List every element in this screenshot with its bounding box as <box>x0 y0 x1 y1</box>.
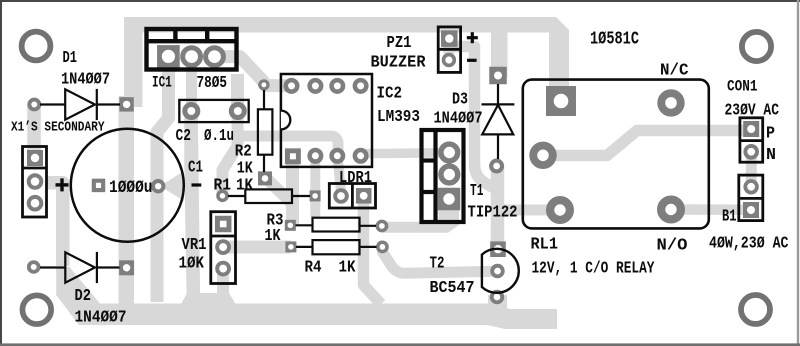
wire bottom ground band left part <box>56 267 487 325</box>
pad T1 collector <box>444 169 455 180</box>
wire ground band fillet under VR1 <box>170 293 248 325</box>
pad D3 anode <box>493 163 500 170</box>
wire D3 anode down to T2 collector pad <box>491 166 505 249</box>
wire R4 right pad to T2 base <box>383 247 498 273</box>
svg-text:RL1: RL1 <box>531 235 559 254</box>
C1 minus sign <box>192 183 202 186</box>
svg-text:1K: 1K <box>236 176 253 195</box>
op-amp IC2 LM393 outline <box>281 74 372 167</box>
pad C1 plus <box>92 179 106 193</box>
C1 plus sign <box>56 183 69 186</box>
wire LDR1 right pad down to ground band <box>364 196 382 304</box>
svg-text:IC1: IC1 <box>152 74 172 92</box>
svg-text:R4: R4 <box>305 258 322 277</box>
transistor T1 TIP122 outline <box>422 130 464 222</box>
svg-text:1ØØØu: 1ØØØu <box>109 178 153 198</box>
svg-text:D1: D1 <box>63 48 78 67</box>
wire PZ1 minus down past T1 to collector net <box>449 47 498 191</box>
resistor R2 outline <box>258 90 273 172</box>
pad VR1 pin3 <box>219 265 227 273</box>
svg-text:P: P <box>766 123 775 142</box>
mounting hole bottom-left <box>25 298 48 321</box>
pad relay N/C <box>665 97 677 109</box>
svg-text:4ØW,23Ø AC: 4ØW,23Ø AC <box>709 234 789 253</box>
IC2 pin1 notch <box>281 111 290 130</box>
pad relay coil bottom RL1 <box>554 204 565 215</box>
pad T1 base <box>444 147 455 158</box>
mounting hole bottom-right <box>744 298 767 321</box>
svg-text:B1: B1 <box>722 207 737 226</box>
pad T2 collector <box>490 241 506 257</box>
wire vertical D1 pad through C1 to D2 pad and ground band <box>119 96 135 314</box>
svg-text:N: N <box>766 145 776 164</box>
mounting hole top-left <box>25 35 48 58</box>
wire IC2 pin5 to T1 top pad <box>364 148 449 158</box>
wire C2 node under R2 into IC2 to pin3 <box>243 136 338 155</box>
svg-text:VR1: VR1 <box>182 235 207 254</box>
potentiometer VR1 outline <box>211 212 236 284</box>
pad IC2 pin1 <box>285 148 301 164</box>
capacitor C2 outline <box>179 100 248 122</box>
wire vertical band to D1 cathode pad <box>124 17 143 107</box>
pad VR1 pin1 <box>215 216 232 233</box>
PZ1 plus sign <box>467 36 478 39</box>
wire supply IC1 pin3 to R2 top and IC2 pin8 <box>213 57 292 86</box>
wire C2 right pad down to R1 left pad <box>223 111 238 196</box>
pad relay coil top <box>546 86 576 116</box>
pad D1 cathode <box>119 97 133 111</box>
pad relay N/O <box>665 204 676 215</box>
wire D1 anode pad down to X1 pin1 <box>27 104 41 156</box>
svg-text:T1: T1 <box>470 181 484 200</box>
svg-text:CON1: CON1 <box>727 78 758 96</box>
pad R1 right <box>310 190 321 201</box>
pad B1 bottom <box>743 202 759 218</box>
pad CON1 N <box>747 148 755 156</box>
pad LDR1 right <box>356 188 372 204</box>
svg-text:D2: D2 <box>75 286 92 305</box>
wire VR1 bottom pin down to ground band <box>217 266 229 300</box>
connector B1 outline <box>739 175 763 221</box>
svg-text:23ØV AC: 23ØV AC <box>725 101 780 120</box>
svg-text:1Ø581C: 1Ø581C <box>590 29 639 50</box>
wire IC2 pin3 down to LDR1 left pad <box>338 156 342 192</box>
wire bottom ground band right step to end <box>487 304 557 330</box>
pad C2 right <box>234 107 242 115</box>
svg-text:C2: C2 <box>176 126 192 145</box>
svg-text:1K: 1K <box>265 226 281 245</box>
pad B1 top <box>747 183 755 191</box>
svg-text:D3: D3 <box>452 90 468 109</box>
wire VR1 wiper to R4 left pad <box>223 241 291 254</box>
diode D2 symbol <box>40 252 120 283</box>
pad R2 bottom <box>258 171 272 185</box>
wire CON1 N pad down to B1 top pad <box>746 152 757 187</box>
svg-text:R1: R1 <box>214 176 232 195</box>
wire top supply band from IC1 area to relay pad <box>124 17 569 103</box>
pad PZ1 minus <box>445 56 452 63</box>
wire IC2 pin1 down to R3 left pad <box>286 156 299 225</box>
svg-text:1ØK: 1ØK <box>179 254 205 273</box>
pad R4 right <box>380 244 386 250</box>
svg-text:1N4ØØ7: 1N4ØØ7 <box>61 70 110 89</box>
pad T1 emitter <box>438 188 461 211</box>
wire IC2 pin2 down to R1 right pad <box>310 156 320 217</box>
capacitor C1 outline <box>71 129 184 242</box>
wire R2 bottom pad to R3 left pad junction <box>267 179 293 204</box>
pad T2 base <box>494 268 501 275</box>
svg-text:1N4ØØ7: 1N4ØØ7 <box>434 109 483 128</box>
pads IC2 bottom row pins 2-4 <box>312 152 319 159</box>
svg-text:N/O: N/O <box>657 236 688 255</box>
svg-text:X1’S SECONDARY: X1’S SECONDARY <box>11 120 105 136</box>
svg-text:C1: C1 <box>188 158 203 177</box>
svg-text:1N4ØØ7: 1N4ØØ7 <box>75 308 127 327</box>
buzzer connector PZ1 outline <box>438 27 460 73</box>
diode D3 symbol <box>482 84 515 159</box>
pad CON1 P <box>743 121 759 137</box>
connector CON1 outline <box>740 118 763 162</box>
resistor R4 outline <box>296 240 377 254</box>
pad X1 pin3 <box>31 199 40 208</box>
pad R4 left <box>285 241 296 252</box>
pad IC1 pin3 <box>208 50 221 63</box>
wire collector net branch to relay coil pad RL1 <box>498 204 549 210</box>
svg-text:T2: T2 <box>430 254 445 273</box>
svg-text:Ø.1u: Ø.1u <box>204 126 234 145</box>
svg-text:PZ1: PZ1 <box>387 33 412 52</box>
wire IC1 pin2 down to C2 left pad <box>186 55 197 111</box>
resistor R3 outline <box>296 218 377 232</box>
wire C2 right pad up to supply trace <box>231 74 244 111</box>
pad T2 emitter <box>494 294 501 301</box>
resistor R1 outline <box>228 189 310 203</box>
pad R3 right <box>379 223 385 229</box>
svg-text:78Ø5: 78Ø5 <box>197 73 228 92</box>
diode D1 symbol <box>40 89 120 120</box>
pad relay common <box>537 150 549 162</box>
pad X1 pin1 <box>27 150 43 166</box>
pad R3 left <box>285 220 296 231</box>
relay RL1 outline <box>523 80 709 229</box>
border frame <box>0 0 800 2</box>
connector X1 outline <box>23 147 47 218</box>
svg-text:1K: 1K <box>339 258 356 277</box>
svg-text:12V, 1 C/O RELAY: 12V, 1 C/O RELAY <box>532 259 655 278</box>
pad R2 top <box>261 82 266 87</box>
mounting hole top-right <box>745 35 768 58</box>
wire IC1 pin1 down through C1 minus pad to ground band <box>157 55 169 302</box>
pad IC1 pin1 <box>157 45 180 68</box>
svg-text:LM393: LM393 <box>377 107 420 126</box>
wire relay common pad to CON1 P pad <box>543 131 752 156</box>
wire relay N/O pad to B1 bottom pad <box>671 204 751 215</box>
svg-text:BUZZER: BUZZER <box>371 53 426 72</box>
pad D3 cathode <box>489 67 507 85</box>
pad PZ1 plus <box>441 30 458 46</box>
pads IC2 top row pins 8-5 <box>288 82 295 89</box>
svg-text:IC2: IC2 <box>377 84 403 103</box>
pad D2 cathode <box>119 260 134 275</box>
svg-text:TIP122: TIP122 <box>468 203 518 222</box>
PZ1 minus sign <box>467 59 477 62</box>
pad VR1 pin2 <box>219 243 227 251</box>
wire C2 left pad down to ground band <box>191 108 194 305</box>
svg-text:N/C: N/C <box>660 61 689 80</box>
LDR1 outline <box>329 184 375 209</box>
pad X1 pin2 <box>31 177 40 186</box>
svg-text:LDR1: LDR1 <box>339 168 372 187</box>
pad D1 anode <box>31 102 37 108</box>
pad LDR1 left <box>337 192 345 200</box>
wire X1 pin2 stub down to ground band <box>46 183 63 266</box>
wire ground band stub up to T2 emitter <box>488 295 507 315</box>
regulator IC1 7805 outline <box>147 29 237 70</box>
pad IC1 pin2 <box>185 50 198 63</box>
wire top band down to D3 cathode pad <box>491 28 508 78</box>
pad R1 left <box>220 193 226 199</box>
transistor T2 BC547 outline <box>482 249 519 293</box>
wire C1 minus pad wedge to ground trace <box>160 171 184 201</box>
wire R3 right pad to T1 base pad <box>382 222 448 233</box>
pad C2 left <box>187 107 195 115</box>
pad C1 minus <box>155 183 161 189</box>
pad D2 anode <box>31 264 37 270</box>
svg-text:BC547: BC547 <box>430 278 475 297</box>
